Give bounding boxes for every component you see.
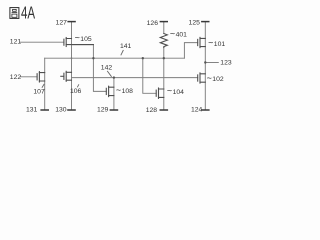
terminal 126 crossbar	[160, 21, 168, 23]
wire: rail x=163.8 from terminal 126 to resistor top	[163, 22, 165, 34]
transistor Q104	[156, 88, 164, 98]
leader line for label 141	[121, 50, 124, 55]
wire: input 122 to gate of Q107	[20, 76, 37, 78]
wire: node 141 horizontal bus	[45, 57, 185, 59]
title glyph 圖 (drawn)	[10, 8, 19, 19]
svg-text:125: 125	[189, 20, 201, 27]
leader line for label 107	[42, 84, 44, 88]
svg-text:121: 121	[10, 38, 22, 45]
svg-text:4A: 4A	[21, 5, 35, 24]
transistor Q102	[198, 73, 206, 83]
junction node 123 on output rail	[204, 61, 206, 63]
junction node on bus 141 at x=71.5	[71, 57, 73, 59]
svg-text:108: 108	[122, 88, 134, 95]
transistor Q105	[64, 38, 94, 47]
terminal 128 crossbar	[160, 109, 169, 111]
svg-text:126: 126	[147, 20, 159, 27]
wire: input 121 to gate of Q105	[20, 41, 64, 43]
resistor R401 zigzag	[160, 34, 167, 48]
svg-text:127: 127	[56, 20, 68, 27]
svg-text:141: 141	[120, 43, 132, 50]
svg-text:401: 401	[176, 32, 188, 39]
svg-text:~: ~	[116, 85, 121, 95]
wire: rail x=113.9 from bus 142 through Q108 to terminal 129	[113, 78, 115, 110]
svg-text:129: 129	[97, 107, 109, 114]
svg-text:131: 131	[26, 107, 38, 114]
svg-text:107: 107	[33, 88, 45, 95]
svg-text:130: 130	[55, 107, 67, 114]
svg-text:105: 105	[80, 36, 92, 43]
terminal 127 crossbar	[67, 21, 75, 23]
svg-text:~: ~	[167, 86, 172, 96]
wire: rail x=44.7 from bus 141 through Q107 to terminal 131	[44, 58, 46, 110]
junction node on bus 142 at x=113.9	[113, 76, 115, 78]
wire: rail x=163.8 from resistor bottom through bus 141 and Q104 to terminal 128	[163, 48, 165, 111]
transistor Q106	[61, 71, 72, 81]
svg-text:123: 123	[220, 60, 232, 67]
terminal 130 crossbar	[67, 109, 76, 111]
svg-text:~: ~	[75, 32, 80, 42]
terminal 125 crossbar	[201, 21, 209, 23]
wire: Q105 source tap right then down to bus 141 and on to gate of Q108	[72, 45, 107, 92]
terminal 129 crossbar	[110, 109, 119, 111]
svg-text:122: 122	[10, 74, 22, 81]
leader line for label 142	[107, 71, 111, 77]
svg-text:102: 102	[212, 76, 224, 83]
terminal 124 crossbar	[201, 109, 210, 111]
wire: rail x=205.3 from terminal 125 through Q101, node 123, Q102 to terminal 124	[204, 22, 206, 110]
wire: output node 123 stub	[205, 62, 218, 64]
wire: bus 141 drop at x=142.8 down to gate of Q104	[143, 58, 156, 93]
svg-text:101: 101	[214, 41, 226, 48]
wire: rail x=71.5 from terminal 127 through Q105 and Q106 to terminal 130	[71, 22, 73, 110]
junction node on bus 141 at x=142.8	[142, 57, 144, 59]
transistor Q101	[198, 37, 206, 47]
terminal 131 crossbar	[40, 109, 49, 111]
junction node on bus 141 at x=163.8	[163, 57, 165, 59]
junction node on bus 141 at x=93.4	[92, 57, 94, 59]
svg-text:106: 106	[70, 88, 82, 95]
svg-text:~: ~	[170, 28, 175, 38]
leader line for label 106	[77, 84, 79, 87]
wire: node 142 horizontal bus to gate of Q102	[72, 77, 198, 79]
svg-text:~: ~	[208, 37, 213, 47]
wire: bus 141 right end up to gate of Q101	[184, 43, 197, 59]
svg-text:128: 128	[146, 107, 158, 114]
transistor Q107	[37, 72, 45, 82]
svg-text:104: 104	[173, 89, 185, 96]
svg-text:142: 142	[101, 65, 113, 72]
svg-text:~: ~	[207, 73, 212, 83]
svg-text:124: 124	[191, 107, 203, 114]
transistor Q108	[106, 86, 114, 96]
